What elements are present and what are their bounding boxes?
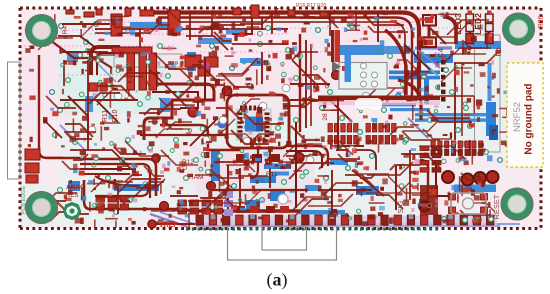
wire lc mesh: [44, 120, 62, 138]
wire thick diagonal NE: [385, 30, 406, 95]
mounting hole H4 (bottom-right): [501, 188, 534, 221]
pad cluster A1: [185, 55, 201, 67]
ratsnest line 1: [24, 29, 139, 31]
svg-text:R6: R6: [496, 47, 503, 56]
blue trace B26: [240, 58, 254, 63]
ground-pour region 5: [330, 52, 395, 97]
connector courtyard inner (below board): [262, 227, 307, 251]
wire bl mesh1: [70, 150, 130, 168]
blue trace B21: [85, 96, 93, 112]
courtyard outline antenna box: [339, 63, 387, 90]
magenta via pad: [202, 62, 210, 70]
blue trace B5a: [356, 103, 416, 106]
ground-pour region 11: [300, 8, 340, 53]
wire module vert 2: [461, 66, 463, 136]
svg-text:28: 28: [322, 113, 329, 121]
blue trace B8: [455, 41, 501, 49]
board interior: [20, 8, 541, 228]
via pad VP7: [222, 86, 232, 96]
power pad P3: [474, 172, 486, 184]
wire module elbow: [443, 17, 456, 44]
purple trace P8: [96, 62, 116, 82]
cap bank pad 3: [26, 175, 38, 183]
mounting hole H2 overlay: [502, 13, 535, 46]
ground-pour region 8: [200, 150, 310, 220]
wire center loop: [227, 95, 289, 148]
module castellation pins: [441, 60, 446, 102]
wire bl mesh2: [64, 131, 96, 133]
no-ground-pad keepout box: [507, 63, 543, 167]
wire tl diag 2: [96, 100, 118, 122]
ground-pour region 2: [60, 115, 295, 215]
svg-text:SIG: SIG: [396, 200, 405, 213]
pad top T3: [125, 8, 131, 16]
svg-text:LED2: LED2: [473, 13, 483, 35]
wire Pi trace: [91, 47, 120, 75]
wire top bus 1: [150, 13, 419, 101]
wire bl arc: [95, 176, 140, 186]
blue trace B18a: [415, 113, 487, 116]
wire top bus 2: [158, 18, 412, 99]
top-layer pour region 1: [95, 10, 215, 65]
svg-text:C4: C4: [438, 48, 445, 57]
IC U1 body: [237, 109, 271, 140]
wire center meander 1: [144, 84, 214, 140]
power jack blob: [418, 185, 438, 215]
courtyard outline left module: [8, 62, 21, 179]
svg-text:ANAG: ANAG: [66, 184, 85, 191]
svg-text:No ground pad: No ground pad: [524, 83, 535, 154]
blue pad B30: [251, 58, 261, 66]
wire top horizontal 4: [95, 28, 288, 30]
via pad VP1: [188, 107, 198, 117]
ground-pour region 12: [230, 90, 300, 150]
wire center diag mesh3: [292, 60, 318, 86]
reset switch overlay outline: [451, 193, 486, 214]
blue trace B24: [305, 185, 319, 191]
mounting hole H1 overlay: [25, 14, 58, 47]
IC U2 pads: [328, 124, 358, 145]
blue trace B4b: [389, 76, 440, 80]
pad cluster A3: [198, 68, 210, 76]
wire led drop 1: [469, 26, 471, 44]
switch S1 outline: [451, 193, 486, 214]
blue trace B19: [198, 38, 232, 44]
wire bl drop: [117, 186, 119, 214]
wire center down: [250, 148, 258, 178]
wire top left 1: [95, 32, 150, 34]
wire mid vertical A: [87, 60, 89, 150]
via pad VP3: [160, 202, 169, 211]
blue bus B3r: [384, 46, 410, 54]
antenna feed bar: [335, 30, 341, 62]
wire top mid drop: [232, 18, 252, 34]
via pad VP5: [148, 220, 156, 228]
resistor top bar: [112, 47, 152, 53]
blue bus B3: [340, 45, 384, 55]
wire top second bundle: [62, 23, 110, 25]
wire mid horizontal C: [140, 134, 228, 136]
octagonal pad overlay: [63, 202, 81, 220]
wire center diag mesh1: [150, 70, 186, 106]
wire mid sweep 1: [286, 146, 328, 166]
no-ground-pad keepout box overlay: [507, 63, 543, 167]
white rounded pad area: [355, 98, 382, 110]
wire tl diag: [68, 96, 88, 138]
wire bc horizontal: [210, 189, 308, 191]
short interconnect wires: [38, 7, 498, 221]
wire center meander 2: [152, 92, 198, 108]
svg-text:VREF: VREF: [159, 222, 178, 229]
top-layer pour overlay bottom-center: [196, 148, 314, 220]
top-layer pour region 4: [300, 30, 410, 90]
wire bottom bus 2: [84, 180, 90, 209]
via pad VP4: [207, 182, 216, 191]
blue bus B3v: [345, 54, 352, 82]
courtyard outline radio module: [475, 35, 501, 152]
antenna feed bar 2: [331, 30, 334, 62]
ground-pour overlay mid-left: [58, 54, 166, 114]
wire center right link: [290, 100, 352, 122]
ratsnest line 5: [90, 33, 290, 35]
ground-pour region 4: [415, 50, 507, 155]
blue trace B16: [299, 210, 345, 215]
wire mid sweep 3: [286, 155, 310, 157]
blue via pad: [218, 120, 227, 129]
svg-text:LED3: LED3: [453, 13, 463, 35]
svg-text:R4: R4: [62, 25, 69, 34]
blue trace B4a: [389, 71, 440, 75]
blue trace B18b: [415, 118, 487, 121]
wire drop D6: [377, 13, 379, 42]
purple pad column: [224, 191, 233, 216]
pad top T9: [320, 12, 328, 17]
IC U1 die: [245, 117, 263, 132]
wire bottom sweep: [90, 209, 196, 214]
ratsnest line 3: [100, 21, 430, 23]
mounting hole H3 overlay: [25, 191, 58, 224]
wire rm mesh2: [440, 95, 474, 97]
blue trace B13: [356, 186, 379, 195]
blue trace B14: [250, 176, 276, 183]
blue trace B10: [264, 164, 291, 169]
wire drop D1: [189, 13, 191, 40]
purple trace P3: [160, 212, 200, 226]
mounting hole H2 (top-right): [502, 13, 535, 46]
wire drop D4: [329, 13, 331, 36]
wire tc mesh3: [186, 36, 228, 50]
copper speckle texture: [25, 12, 512, 236]
ratsnest line 7: [60, 74, 140, 76]
LED D3 pads: [466, 11, 474, 44]
wire bottom bus 1: [198, 209, 300, 212]
mounting hole H1 (top-left): [25, 14, 58, 47]
blue trace B23: [489, 125, 498, 140]
wire br net: [436, 160, 452, 196]
blue trace B7t: [488, 63, 492, 101]
mid maroon bus: [318, 96, 440, 101]
ground-pour region 1: [57, 55, 163, 113]
svg-text:R18 R17 R20: R18 R17 R20: [296, 3, 327, 9]
wire right vertical 3: [310, 44, 312, 126]
pad pair row TC: [236, 154, 280, 162]
header J3 pads: [420, 146, 441, 172]
wire sig drop: [395, 166, 397, 210]
wire drop D2: [211, 13, 213, 36]
blue trace B4v: [424, 78, 429, 104]
blue bus B28 (vertical bar): [211, 151, 220, 181]
pad top T2: [251, 5, 259, 18]
resistor R9 pads: [149, 53, 157, 90]
via pad VP8: [152, 154, 160, 162]
wire rc horizontal: [290, 83, 330, 85]
blue trace B27: [67, 51, 78, 62]
purple diagonal D2: [418, 50, 440, 68]
wire mid connect: [330, 145, 364, 147]
wire right vertical 1: [299, 34, 301, 132]
wire bm riser 2: [239, 168, 241, 212]
blue stub redraw: [345, 54, 352, 82]
antenna keepout area redraw: [339, 63, 387, 90]
wire left bus 3: [80, 168, 136, 170]
wire center diag mesh2: [190, 120, 216, 146]
resistor R11 pads: [139, 53, 147, 90]
wire bc vertical: [295, 122, 297, 208]
wire bc mesh5: [238, 175, 268, 177]
vias: [50, 22, 503, 223]
wire rm mesh3: [436, 117, 470, 119]
switch S1 plunger: [463, 198, 474, 209]
svg-text:R11: R11: [102, 110, 109, 122]
blue trace B9 (reset connector): [454, 185, 496, 193]
wire top bus 3: [170, 22, 405, 96]
pad row BC: [236, 206, 289, 213]
svg-text:(a): (a): [267, 270, 288, 291]
blue trace B12: [114, 184, 159, 191]
blue trace B1: [130, 22, 180, 28]
svg-text:NRF52: NRF52: [512, 102, 523, 132]
purple trace P1: [415, 46, 452, 49]
blue trace B11: [270, 172, 289, 176]
capacitor C1 pad: [111, 14, 122, 36]
IC U1 pins: [238, 106, 270, 143]
svg-text:R11: R11: [266, 171, 278, 178]
wire br hook: [420, 160, 428, 200]
PCB edge left border: [19, 8, 22, 228]
blue trace B5b: [390, 108, 430, 111]
wire drop D3: [271, 13, 273, 34]
wire left bus 1: [80, 159, 156, 196]
wire rm mesh1: [404, 44, 430, 70]
wire top left 2: [139, 29, 141, 50]
big ringed pad BC: [278, 194, 288, 204]
IC U3 pads: [366, 124, 396, 145]
ground-pour region 10: [60, 8, 120, 53]
cap bank pad 1: [25, 149, 40, 160]
ratsnest line 8: [330, 21, 420, 23]
ground-pour region 3: [300, 120, 435, 215]
blue trace B15: [270, 190, 285, 201]
wire tc mesh2: [261, 52, 263, 84]
wire left edge drop: [39, 55, 80, 158]
bottom edge ground net dotted line: [186, 228, 438, 231]
pad top T8: [288, 10, 295, 16]
svg-text:R2: R2: [140, 11, 149, 18]
ground-pour region 9: [430, 8, 490, 48]
svg-text:R12: R12: [182, 159, 194, 166]
wire C4 link: [428, 24, 431, 40]
antenna feed triangle redraw: [332, 61, 341, 72]
octagonal pad (bottom-left): [63, 202, 81, 220]
power pad P2: [462, 174, 474, 186]
wire mid vertical B: [204, 58, 206, 100]
blue trace B2: [187, 52, 196, 71]
wire tc mesh1: [232, 43, 288, 45]
svg-text:RES: RES: [66, 193, 78, 199]
wire rc vertical: [337, 96, 339, 150]
blue trace B20: [226, 30, 246, 35]
component ringed pads: [88, 84, 370, 164]
wire center meander 3: [160, 125, 240, 150]
header J2 pads: [431, 141, 483, 156]
wire bl cluster: [95, 186, 148, 196]
castellated edge pads J1: [195, 215, 497, 225]
blue trace B17: [68, 181, 80, 191]
wire tl col: [63, 60, 65, 86]
resistor R10 pads: [127, 53, 135, 90]
wire hole1 tail: [50, 40, 112, 68]
wire left bus 4: [80, 173, 130, 175]
courtyard outline mid-left: [114, 54, 182, 67]
pad top T6: [96, 9, 102, 15]
wire bm mesh2: [318, 189, 372, 191]
wire drop D5: [355, 13, 357, 30]
wire bm riser 1: [227, 165, 229, 210]
svg-text:R26: R26: [538, 15, 545, 28]
top-layer pour region 2: [160, 60, 300, 120]
wire right curve: [398, 80, 421, 120]
ratsnest line 6: [200, 51, 380, 53]
wire tl hook: [58, 36, 96, 48]
blue pad B29: [246, 200, 260, 213]
blue diagonal D1: [412, 52, 438, 76]
ratsnest line 2: [24, 45, 174, 47]
purple trace P7: [408, 118, 428, 138]
purple trace P6: [60, 125, 85, 170]
wire led drop 2: [488, 26, 490, 44]
ground-pour region 6: [140, 55, 210, 110]
via pad VP6: [332, 71, 341, 80]
mid maroon bus pink: [318, 101, 440, 105]
resistor R2 pad: [168, 10, 180, 35]
pad pair BL1: [89, 83, 98, 91]
antenna feed triangle: [332, 61, 341, 72]
PCB edge right border: [540, 8, 543, 228]
purple trace P2: [150, 214, 188, 227]
capacitor C4 pads: [422, 15, 436, 47]
wire mid horizontal A: [60, 99, 138, 101]
wire mid sweep 2: [286, 151, 322, 168]
blue trace B25: [330, 160, 348, 165]
blue bus B7 (module vertical): [486, 102, 496, 136]
power pad P4: [487, 171, 499, 183]
ratsnest line 4: [150, 27, 450, 29]
reset switch overlay plunger: [463, 198, 474, 209]
wire top right mesh: [430, 28, 446, 44]
wire center down 2: [269, 148, 271, 188]
svg-text:PCB EDGE: PCB EDGE: [21, 185, 27, 214]
wire right vertical 2: [305, 40, 307, 128]
pad top T4: [66, 10, 74, 14]
pad cluster A2: [204, 57, 218, 67]
svg-text:RAM: RAM: [189, 174, 203, 181]
wire vref bus: [156, 223, 196, 225]
wire top mid drop2: [261, 18, 263, 30]
pad top T5: [84, 12, 94, 17]
wire module link: [469, 140, 471, 156]
wire module vert 1: [454, 62, 456, 140]
resistor array pads bottom-left: [96, 196, 223, 214]
wire bm drop2: [331, 170, 333, 214]
wire mid connect 2: [336, 150, 376, 170]
wire left bus 2: [80, 164, 150, 198]
pad pair BL2: [100, 83, 107, 91]
switch S1 pads: [449, 194, 488, 214]
purple trace P5: [196, 223, 520, 225]
mounting hole H3 (bottom-left): [25, 191, 58, 224]
blue trace B22: [160, 98, 170, 112]
LED D2 pads: [486, 11, 494, 44]
wire Pi trace inner: [97, 53, 118, 75]
PCB edge bottom border: [20, 227, 541, 230]
connector courtyard outer (below board): [228, 222, 337, 260]
wire bm mesh1: [214, 161, 262, 163]
ground-pour region 7: [22, 185, 142, 225]
wire bm mesh3: [352, 170, 384, 196]
top-layer pour region 3: [22, 30, 74, 120]
wire rm drop: [409, 150, 411, 200]
pad top T1: [233, 8, 241, 15]
purple trace P4: [196, 225, 500, 227]
PCB edge top border: [20, 7, 541, 10]
antenna pad grid: [361, 63, 378, 87]
blue trace B6: [414, 54, 453, 63]
svg-text:R10: R10: [112, 109, 119, 122]
antenna tuning pad: [342, 66, 350, 71]
top-layer pour region 5: [180, 145, 240, 185]
svg-text:RESET: RESET: [492, 194, 501, 219]
power pad P1: [442, 171, 454, 183]
wire bc mesh4: [170, 195, 198, 197]
cap bank pad 2: [25, 163, 39, 173]
via pad VP2: [294, 153, 304, 163]
mounting hole H4 overlay: [501, 188, 534, 221]
wire mid horizontal B: [62, 51, 108, 53]
pad top T7: [140, 10, 154, 16]
